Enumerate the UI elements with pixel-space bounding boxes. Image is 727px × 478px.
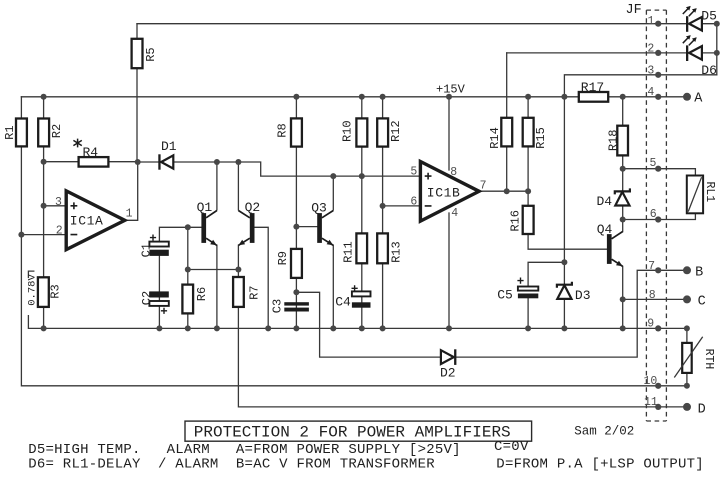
node R10 top on +15V rail: [359, 94, 365, 100]
node R6 top: [185, 267, 191, 273]
node C5 top / D3 cathode: [561, 259, 567, 265]
node C5 bottom on ground rail: [525, 325, 531, 331]
node Q2 emitter / R7 top: [235, 267, 241, 273]
capacitor C5: [517, 278, 538, 299]
wire R1 column and pin10 row: [21, 97, 687, 386]
LED D5: [683, 6, 702, 32]
wire base link row: [188, 269, 239, 271]
svg-text:R2: R2: [50, 124, 64, 138]
node R2 bottom / R4 left: [41, 159, 47, 165]
thermistor RTH diagonal: [674, 337, 702, 378]
wire C3 node to D2 to pin7 row: [296, 270, 687, 357]
resistor R16: [523, 206, 534, 234]
node Q1 emitter on ground rail: [214, 325, 220, 331]
wire C1 C2 column: [158, 256, 160, 329]
svg-text:B: B: [695, 266, 703, 281]
node R2 top on +15V rail: [41, 94, 47, 100]
svg-text:R4: R4: [83, 145, 99, 160]
node IC1A pin2 / R1 bottom: [18, 232, 24, 238]
diode D2: [441, 349, 457, 365]
wire Q3 emitter column: [332, 245, 334, 328]
wire R18 column: [622, 97, 624, 169]
node IC1B pin8 on +15V rail: [446, 94, 452, 100]
wire pin3 link: [564, 75, 716, 97]
resistor R10: [356, 118, 367, 146]
node Q3 emitter on ground rail: [330, 325, 336, 331]
node Q3 base / R8 / R9: [293, 224, 299, 230]
terminal C: [683, 295, 691, 303]
svg-text:Q2: Q2: [245, 200, 261, 215]
node Q2 collector on D1 row: [235, 159, 241, 165]
wire R6 column: [187, 227, 189, 328]
svg-text:C2: C2: [140, 291, 154, 305]
svg-text:5: 5: [650, 157, 657, 170]
svg-text:Q4: Q4: [597, 222, 613, 237]
svg-text:IC1B: IC1B: [427, 186, 461, 201]
op-amp IC1B: [420, 162, 479, 222]
label star R4: [73, 139, 81, 148]
svg-text:11: 11: [644, 396, 658, 409]
wire Q2 base to ground: [255, 227, 269, 328]
wire pin2 D6 row: [507, 52, 717, 54]
wire D1 row to IC1B pin5: [138, 162, 421, 176]
node R15 top on +15V rail: [525, 94, 531, 100]
node R18 bottom / D4 cathode / pin5: [620, 166, 626, 172]
wire R2 column to R3: [43, 97, 45, 329]
wire ground rail pin9 row: [28, 316, 687, 329]
wire IC1A pin3 row: [44, 205, 67, 207]
node IC1A output / R4 / R5 / D1 cathode: [135, 159, 141, 165]
pin 3 JF dot: [655, 72, 661, 78]
wire Q1 collector column: [216, 162, 218, 210]
node D6 anode: [714, 50, 720, 56]
zener diode D3: [557, 282, 572, 299]
pin 1 JF dot: [655, 21, 661, 27]
wire R10 R11 C4 column: [361, 97, 363, 329]
wire IC1B pin4 power: [448, 213, 450, 328]
svg-text:Q1: Q1: [197, 200, 213, 215]
wire R5 column crossing rail: [136, 24, 138, 162]
wire IC1A output jog: [125, 162, 138, 220]
svg-text:C: C: [698, 294, 706, 309]
svg-text:8: 8: [649, 289, 656, 302]
svg-text:R11: R11: [342, 241, 356, 263]
svg-text:R17: R17: [581, 80, 604, 95]
wire R15 R16 column and Q4 base row: [528, 97, 607, 249]
node R8 top on +15V rail: [293, 94, 299, 100]
svg-text:D1: D1: [161, 139, 177, 154]
svg-text:B=AC V FROM TRANSFORMER: B=AC V FROM TRANSFORMER: [236, 457, 435, 473]
svg-text:+15V: +15V: [436, 83, 466, 97]
svg-text:9: 9: [647, 318, 654, 331]
svg-text:4: 4: [647, 86, 654, 99]
wire pin6 row to RL1: [623, 213, 696, 219]
node D4 anode / Q4 collector / pin6: [620, 217, 626, 223]
resistor R11: [356, 233, 367, 263]
zener diode D4: [615, 188, 630, 205]
wire C1 to Q1 base: [159, 227, 201, 242]
svg-text:1: 1: [648, 15, 655, 28]
svg-text:RL1: RL1: [703, 181, 716, 202]
resistor R13: [377, 233, 388, 263]
wire Q1 emitter column: [216, 245, 218, 328]
svg-text:7: 7: [648, 260, 655, 273]
relay RL1 diagonal: [688, 177, 701, 211]
svg-text:D6: D6: [701, 63, 717, 78]
resistor R7: [233, 277, 244, 307]
connector JF dashed outline: [646, 10, 666, 421]
resistor R5: [132, 39, 143, 68]
resistor R3: [38, 277, 49, 307]
svg-text:0.78V: 0.78V: [27, 274, 39, 306]
capacitor C2: [149, 291, 168, 314]
svg-text:2: 2: [647, 43, 654, 56]
wire pin5 row to RL1: [623, 169, 696, 176]
wire IC1B pin6 row: [383, 205, 421, 207]
wire R4 row: [44, 161, 138, 163]
svg-text:R5: R5: [144, 47, 158, 61]
thermistor RTH: [682, 343, 692, 373]
svg-text:D6= RL1-DELAY / ALARM: D6= RL1-DELAY / ALARM: [28, 457, 218, 473]
node D3 anode on ground rail: [561, 325, 567, 331]
svg-text:C=0V: C=0V: [494, 439, 529, 455]
svg-text:R8: R8: [276, 123, 290, 137]
pin 10 JF dot: [655, 383, 661, 389]
node R6 bottom on ground rail: [185, 325, 191, 331]
svg-text:8: 8: [450, 166, 457, 179]
resistor R1: [16, 119, 27, 147]
node R18 top at R17 output: [620, 94, 626, 100]
svg-text:RTH: RTH: [702, 349, 715, 370]
node R10 bottom / R11 top: [359, 173, 365, 179]
pin 4 JF dot: [655, 94, 661, 100]
pin 2 JF dot: [655, 50, 661, 56]
wire Q3 collector column: [332, 176, 334, 210]
transistor Q2: [238, 211, 254, 246]
svg-text:R18: R18: [606, 129, 620, 151]
title box: [185, 421, 532, 441]
resistor R4: [79, 157, 109, 167]
svg-text:2: 2: [56, 225, 63, 238]
transistor Q3: [317, 211, 333, 246]
svg-text:R7: R7: [248, 285, 262, 299]
LED D6: [683, 35, 702, 61]
svg-text:R12: R12: [389, 120, 403, 142]
relay coil RL1: [687, 176, 703, 214]
wire D3 column: [563, 97, 565, 329]
resistor R6: [182, 285, 193, 314]
resistor R2: [38, 119, 49, 147]
node Q1 collector on D1 row: [214, 159, 220, 165]
wire R8 R9 C3 column: [295, 97, 297, 329]
svg-text:4: 4: [451, 207, 458, 220]
resistor R15: [523, 118, 534, 147]
capacitor C4: [352, 285, 371, 307]
node R12 top on +15V rail: [380, 94, 386, 100]
svg-text:IC1A: IC1A: [70, 214, 104, 229]
svg-text:6: 6: [650, 208, 657, 221]
wire Q3 base row: [296, 226, 317, 228]
transistor Q4: [607, 232, 623, 267]
pin 6 JF dot: [655, 216, 661, 222]
wire D5 anode to right column: [702, 24, 717, 75]
svg-text:JF: JF: [626, 3, 642, 18]
node IC1A pin3 / R3 top: [41, 203, 47, 209]
terminal A: [683, 93, 691, 101]
svg-text:D=FROM P.A [+LSP OUTPUT]: D=FROM P.A [+LSP OUTPUT]: [496, 457, 704, 473]
svg-text:D2: D2: [440, 366, 456, 381]
capacitor C1: [149, 235, 168, 256]
wire RTH column: [686, 328, 688, 385]
terminal D: [683, 403, 691, 411]
wire D4 stubs: [622, 169, 624, 220]
wire Q4 collector stub: [622, 220, 624, 232]
svg-text:10: 10: [644, 375, 658, 388]
node R9 bottom / C3 top / D2 feed: [293, 289, 299, 295]
transistor Q1: [201, 211, 217, 246]
svg-text:7: 7: [480, 179, 487, 192]
wire top row pin1 to R5: [137, 23, 686, 25]
svg-text:PROTECTION 2 FOR POWER AMPLIFI: PROTECTION 2 FOR POWER AMPLIFIERS: [194, 423, 511, 441]
svg-text:R10: R10: [340, 120, 354, 142]
svg-text:Q3: Q3: [311, 200, 327, 215]
node D5 anode: [714, 21, 720, 27]
node C2 bottom on ground rail: [156, 325, 162, 331]
node IC1B pin4 on ground rail: [446, 325, 452, 331]
pin 7 JF dot: [655, 267, 661, 273]
wire +15V rail: [21, 96, 687, 98]
node +15V to pin3 and D3 column: [561, 94, 567, 100]
node C4 bottom on ground rail: [359, 325, 365, 331]
svg-text:R14: R14: [488, 127, 502, 149]
svg-text:R3: R3: [48, 284, 62, 298]
terminal B: [683, 266, 691, 274]
node R3 bottom on ground rail: [41, 325, 47, 331]
svg-text:D5: D5: [701, 8, 717, 23]
node 0.78V bracket top: [28, 271, 33, 277]
svg-text:A: A: [694, 91, 703, 106]
pin 9 JF dot: [655, 325, 661, 331]
node Q4 emitter / pin8 row: [620, 296, 626, 302]
wire C5 link: [528, 262, 564, 286]
resistor R17: [579, 92, 608, 102]
svg-text:1: 1: [126, 208, 133, 221]
resistor R9: [291, 249, 302, 278]
resistor R18: [617, 126, 628, 156]
resistor R8: [291, 118, 302, 146]
pin 11 JF dot: [655, 404, 661, 410]
svg-text:C3: C3: [271, 299, 285, 313]
svg-text:D3: D3: [575, 288, 591, 303]
op-amp IC1A: [66, 191, 125, 250]
wire R14 column: [506, 53, 508, 191]
svg-text:3: 3: [647, 64, 654, 77]
svg-text:C5: C5: [497, 288, 513, 303]
node Q2 base resistor path on ground rail: [265, 325, 271, 331]
node C3 bottom on ground rail: [293, 325, 299, 331]
node R14 bottom / pin2 wire on IC1B output: [504, 188, 510, 194]
node Q3 collector on IC1B pin5 row: [330, 173, 336, 179]
svg-text:R15: R15: [534, 127, 548, 149]
wire C5 bottom: [527, 298, 529, 328]
svg-text:6: 6: [410, 195, 417, 208]
node Q4 emitter on ground rail: [620, 325, 626, 331]
node RTH bottom / pin10 row: [684, 383, 690, 389]
wire Q2 collector column: [237, 162, 239, 210]
capacitor C3: [284, 302, 309, 311]
svg-text:5: 5: [410, 166, 417, 179]
svg-text:C4: C4: [335, 295, 351, 310]
svg-text:R16: R16: [509, 210, 523, 232]
svg-text:3: 3: [55, 196, 62, 209]
node IC1B pin6 / R12 bottom / R13 top: [380, 203, 386, 209]
wire Q4 emitter column: [622, 266, 624, 328]
node R13 bottom on ground rail: [380, 325, 386, 331]
svg-text:R9: R9: [276, 251, 290, 265]
svg-text:C1: C1: [139, 243, 153, 257]
wire Q2 emitter to R7 and pin11 row: [238, 245, 687, 407]
node R15 bottom / R16 top on IC1B output: [525, 188, 531, 194]
svg-text:D4: D4: [597, 194, 613, 209]
resistor R12: [377, 118, 388, 146]
wire pin8 row C terminal: [623, 298, 687, 300]
svg-text:R13: R13: [390, 241, 404, 263]
svg-text:Sam 2/02: Sam 2/02: [574, 425, 634, 439]
node Q1 base / C1 top: [185, 224, 191, 230]
resistor R14: [501, 118, 512, 147]
pin 5 JF dot: [655, 166, 661, 172]
node RTH top on ground rail: [684, 325, 690, 331]
diode D1: [158, 154, 173, 169]
svg-text:R6: R6: [195, 287, 209, 301]
svg-text:D: D: [698, 403, 706, 418]
wire IC1A pin2 row: [21, 234, 66, 236]
wire IC1B output row: [479, 190, 528, 192]
wire IC1B pin8 power: [448, 97, 450, 170]
wire R12 R13 column: [382, 97, 384, 329]
svg-text:R1: R1: [3, 125, 17, 139]
